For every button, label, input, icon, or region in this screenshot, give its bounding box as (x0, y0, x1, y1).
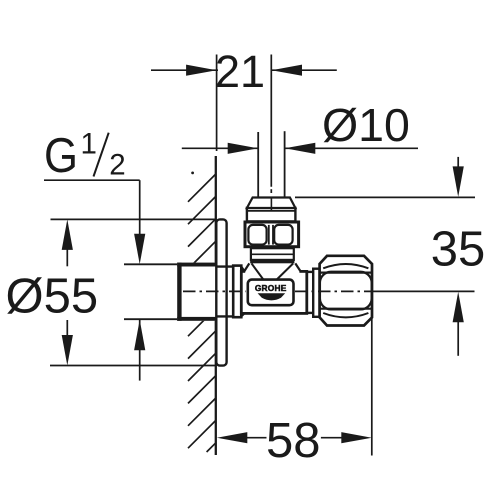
svg-text:Ø55: Ø55 (6, 270, 99, 324)
svg-text:21: 21 (215, 46, 265, 97)
svg-text:58: 58 (266, 414, 321, 468)
svg-text:Ø10: Ø10 (322, 99, 410, 151)
svg-text:2: 2 (109, 149, 125, 182)
svg-text:1: 1 (81, 128, 97, 161)
svg-text:GROHE: GROHE (255, 283, 287, 293)
svg-text:35: 35 (431, 222, 486, 276)
svg-text:G: G (44, 129, 78, 183)
